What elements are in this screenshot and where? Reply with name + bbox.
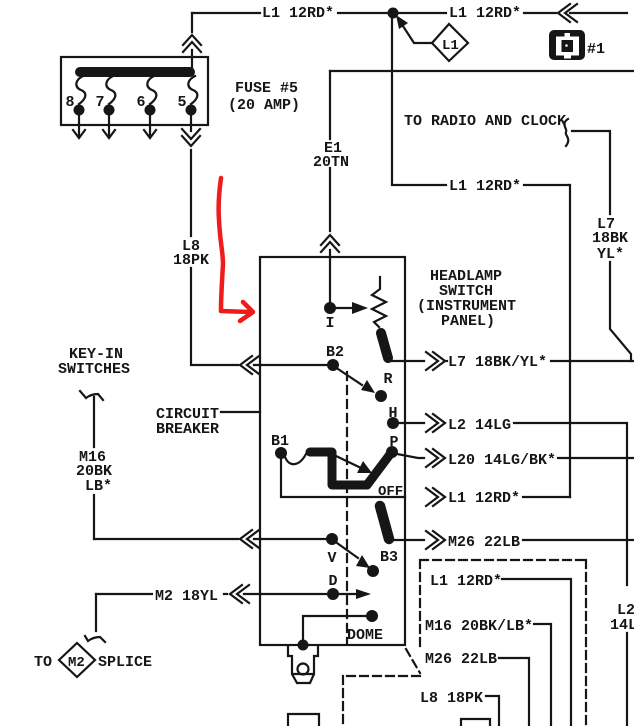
svg-text:L1 12RD*: L1 12RD* [448,490,520,507]
connector chevrons right L20 [426,449,445,467]
connector chevrons down pin 5 [182,129,200,146]
wire L1 top horizontal [192,12,627,14]
connector chevrons left M2 row [230,585,249,603]
wire E1 horizontal off page right [330,70,634,72]
connector chevrons right M26 [426,531,445,549]
svg-text:L7 18BK/YL*: L7 18BK/YL* [448,354,547,371]
headlamp switch box [260,257,405,645]
wire M2 down to splice [95,594,97,631]
wire break squiggle M2 [85,636,105,642]
wire below pin 5 [190,115,192,236]
connector chevrons left V row [240,530,259,548]
wire L2 row and corner down [514,423,627,585]
connector chevrons top right [558,4,577,22]
svg-text:L1 12RD*: L1 12RD* [449,178,521,195]
arrow B1 to OFF [336,456,359,467]
fuse bus bar [80,67,190,77]
wire from junction dot down [392,17,569,185]
node dot on box bottom [298,640,309,651]
arrow below pin 8 [73,115,85,138]
svg-text:TO RADIO AND CLOCK: TO RADIO AND CLOCK [404,113,566,130]
wire E1 vertical [329,71,331,302]
svg-text:M2 18YL: M2 18YL [155,588,218,605]
wire L7 row to right edge [551,360,634,362]
contact V [326,533,338,545]
svg-text:BREAKER: BREAKER [156,421,219,438]
svg-text:L1: L1 [442,38,459,54]
leader arrow from L1 splice to junction [401,23,432,43]
svg-text:TO: TO [34,654,52,671]
wire L8 stub [486,696,499,726]
svg-text:L1 12RD*: L1 12RD* [449,5,521,22]
arrow V to contact [337,543,358,558]
svg-text:LB*: LB* [85,478,112,495]
fuse block outline [61,57,208,125]
svg-text:8: 8 [65,94,74,111]
wiper thick path B1 OFF P [310,452,391,485]
wire B1 down and right to L1 row [281,459,405,497]
svg-text:L1 12RD*: L1 12RD* [262,5,334,22]
svg-text:I: I [325,315,334,332]
red annotation arrow [219,178,250,312]
wire break squiggle key-in [80,391,103,400]
connector icon #1 [549,30,585,60]
svg-text:7: 7 [95,94,104,111]
pin 5 dot [186,105,197,116]
pin 7 dot [104,105,115,116]
connector chevrons up E1 [321,235,339,252]
wire M2 18YL row [96,593,261,595]
connector chevrons right L2 [426,414,445,432]
wire L1 off row to bus [523,496,570,498]
wire L20 row to right edge [558,457,634,459]
wire DOME to bottom [303,616,366,643]
wire L7 vertical lower with jog [610,262,631,361]
dashed divider line [346,372,348,643]
connector chevrons left L8 row [240,356,259,374]
resistor dimmer rheostat [372,277,386,327]
wire L8 down to corner and right to switch [191,268,261,365]
wire M26 row to right edge [523,539,634,541]
wire M16 to V row [94,538,261,540]
arrow below pin 7 [103,115,115,138]
splice symbol L1 diamond [432,24,468,61]
svg-text:18BK: 18BK [592,230,628,247]
wire into V [261,538,326,540]
pin 8 dot [74,105,85,116]
svg-text:L1 12RD*: L1 12RD* [430,573,502,590]
connector chevrons right L1 off row [426,488,445,506]
svg-text:R: R [383,371,392,388]
wire B3 to M26 row [390,539,424,541]
svg-text:M26 22LB: M26 22LB [425,651,497,668]
contact dot below B3 [367,565,379,577]
wire into B2 [261,364,327,366]
wire L1 bus vertical right [569,185,571,497]
arrow B2 to R contact [338,369,362,385]
connector plug below box [288,646,318,683]
dashed connector region [343,560,586,726]
wire radio and clock to L7 vertical [572,131,610,214]
circuit breaker curve [285,454,306,464]
arrow from D [339,593,357,595]
wire L1 stub [502,579,571,726]
wire from top corner down to fuse box [191,13,193,67]
fuse element pin 6 [147,76,156,104]
wire M26 stub [499,658,529,726]
svg-text:L8 18PK: L8 18PK [420,690,483,707]
contact I dot [324,302,336,314]
wiper bar B3 [380,506,389,539]
splice symbol M2 diamond [59,643,95,677]
svg-text:V: V [327,550,336,567]
fuse element pin 7 [106,76,115,104]
component box bottom right [461,719,490,726]
svg-text:B2: B2 [326,344,344,361]
svg-text:20TN: 20TN [313,154,349,171]
connector chevrons up on fuse 5 feed [183,35,201,52]
wire H to L2 row [399,422,424,424]
wire L2 vertical lower [626,633,628,726]
wire R to L7 row [390,360,447,362]
svg-text:M16 20BK/LB*: M16 20BK/LB* [425,618,533,635]
wire into D [261,593,327,595]
node junction dot L1 [388,8,399,19]
svg-text:M2: M2 [68,655,85,671]
fuse element pin 8 [76,76,85,104]
pin 6 dot [145,105,156,116]
svg-text:FUSE #5: FUSE #5 [235,80,298,97]
wire break squiggle radio [564,119,568,146]
svg-text:SWITCHES: SWITCHES [58,361,130,378]
component box bottom left [288,714,319,726]
wiper bar R [381,333,388,358]
svg-text:PANEL): PANEL) [441,313,495,330]
svg-text:L2 14LG: L2 14LG [448,417,511,434]
contact dot below R [375,390,387,402]
connector chevrons right L7 [426,352,445,370]
svg-text:DOME: DOME [347,627,383,644]
svg-text:5: 5 [177,94,186,111]
svg-text:SPLICE: SPLICE [98,654,152,671]
arrow from I to resistor [336,307,354,309]
svg-text:18PK: 18PK [173,252,209,269]
svg-text:L20 14LG/BK*: L20 14LG/BK* [448,452,556,469]
wire P to L20 row [397,454,424,458]
svg-text:6: 6 [136,94,145,111]
wire M16 vertical [93,397,95,539]
svg-text:B3: B3 [380,549,398,566]
svg-text:14L: 14L [610,617,634,634]
svg-text:(20 AMP): (20 AMP) [228,97,300,114]
wire M16 stub [534,624,551,726]
svg-text:YL*: YL* [597,246,624,263]
fuse element pin 5 [188,76,197,104]
svg-text:M26 22LB: M26 22LB [448,534,520,551]
svg-text:#1: #1 [587,41,605,58]
arrow below pin 6 [144,115,156,138]
leader circuit breaker [221,411,260,413]
svg-text:D: D [328,573,337,590]
contact DOME [366,610,378,622]
